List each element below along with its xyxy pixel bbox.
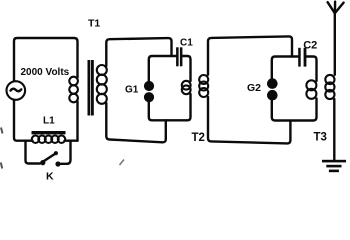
svg-text:T3: T3 [314,132,327,144]
svg-text:2000 Volts: 2000 Volts [21,67,70,78]
svg-text:C2: C2 [303,39,317,51]
svg-text:L1: L1 [43,116,55,127]
svg-text:C1: C1 [180,38,193,49]
svg-text:T2: T2 [192,132,205,144]
svg-text:T1: T1 [88,18,100,30]
svg-text:K: K [46,171,54,182]
svg-text:G2: G2 [247,82,261,94]
svg-text:G1: G1 [125,85,139,96]
